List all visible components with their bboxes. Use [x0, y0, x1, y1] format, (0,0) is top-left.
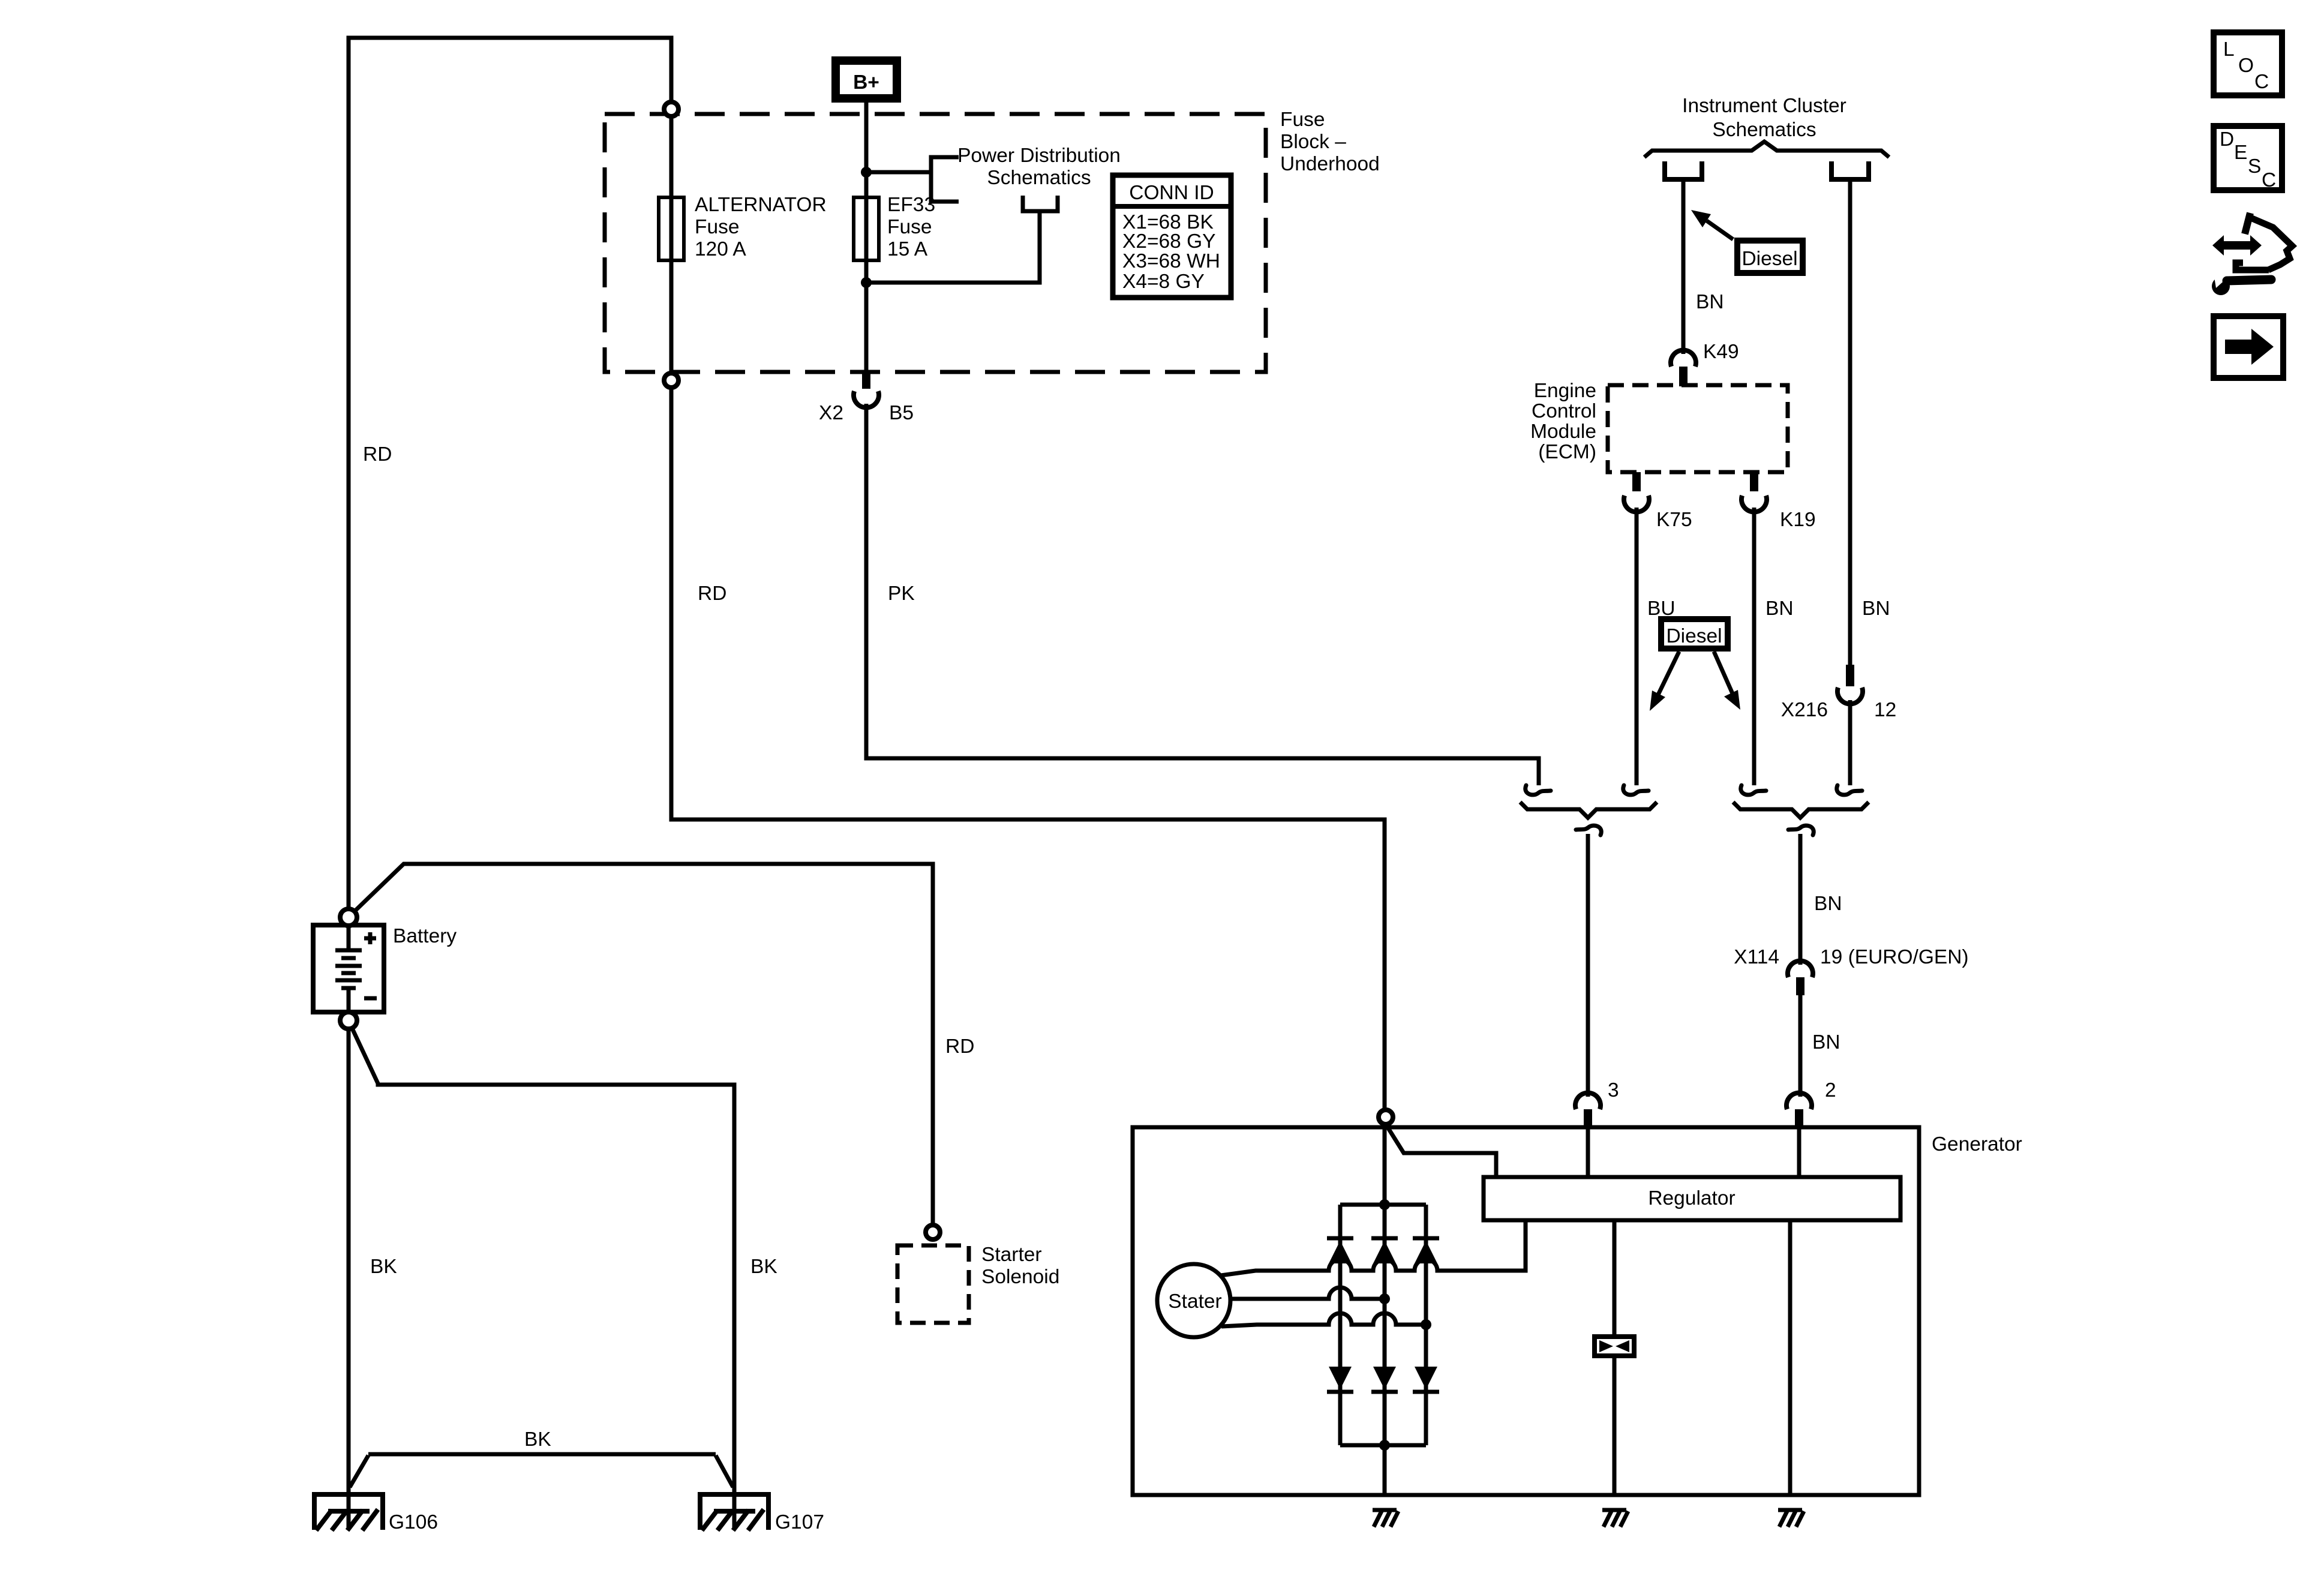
- svg-text:Generator: Generator: [1932, 1133, 2022, 1155]
- svg-text:B5: B5: [889, 402, 914, 424]
- svg-text:(ECM): (ECM): [1538, 441, 1596, 463]
- svg-text:RD: RD: [363, 443, 392, 466]
- svg-text:E: E: [2234, 142, 2247, 164]
- svg-text:Block –: Block –: [1280, 131, 1346, 153]
- svg-text:Solenoid: Solenoid: [981, 1266, 1059, 1288]
- svg-text:Diesel: Diesel: [1742, 248, 1797, 270]
- svg-text:C: C: [2254, 71, 2269, 93]
- svg-text:RD: RD: [698, 583, 726, 605]
- svg-text:EF33: EF33: [887, 194, 935, 216]
- svg-text:S: S: [2248, 155, 2261, 178]
- svg-text:Underhood: Underhood: [1280, 153, 1380, 175]
- svg-text:X216: X216: [1781, 699, 1828, 721]
- svg-text:15 A: 15 A: [887, 238, 928, 260]
- svg-text:K49: K49: [1703, 341, 1739, 363]
- svg-text:Diesel: Diesel: [1666, 625, 1722, 647]
- svg-text:BK: BK: [750, 1256, 777, 1278]
- svg-text:Fuse: Fuse: [695, 216, 739, 238]
- svg-text:BU: BU: [1647, 598, 1676, 620]
- svg-text:B+: B+: [853, 71, 879, 94]
- svg-text:BN: BN: [1812, 1031, 1840, 1053]
- svg-text:Engine: Engine: [1534, 380, 1596, 402]
- svg-text:X2: X2: [819, 402, 843, 424]
- svg-text:C: C: [2262, 169, 2276, 191]
- svg-text:Schematics: Schematics: [987, 167, 1091, 189]
- svg-text:Regulator: Regulator: [1648, 1187, 1735, 1209]
- svg-text:Schematics: Schematics: [1712, 119, 1816, 141]
- svg-text:Fuse: Fuse: [887, 216, 932, 238]
- svg-text:G106: G106: [389, 1511, 438, 1533]
- svg-text:Control: Control: [1532, 400, 1596, 422]
- svg-text:ALTERNATOR: ALTERNATOR: [695, 194, 827, 216]
- svg-text:K75: K75: [1656, 509, 1692, 531]
- svg-text:120 A: 120 A: [695, 238, 746, 260]
- svg-text:Module: Module: [1530, 421, 1596, 443]
- svg-text:Battery: Battery: [393, 925, 457, 947]
- svg-text:BN: BN: [1814, 893, 1842, 915]
- svg-text:K19: K19: [1780, 509, 1816, 531]
- svg-text:3: 3: [1608, 1079, 1619, 1101]
- svg-text:Power Distribution: Power Distribution: [957, 145, 1121, 167]
- svg-text:Stater: Stater: [1168, 1290, 1221, 1313]
- svg-text:L: L: [2223, 38, 2235, 61]
- svg-text:BN: BN: [1862, 598, 1890, 620]
- svg-text:Instrument Cluster: Instrument Cluster: [1682, 95, 1846, 117]
- svg-text:12: 12: [1874, 699, 1896, 721]
- svg-text:G107: G107: [775, 1511, 824, 1533]
- svg-text:D: D: [2220, 128, 2234, 151]
- svg-text:X114: X114: [1734, 946, 1779, 968]
- svg-text:BK: BK: [524, 1428, 551, 1451]
- svg-text:BK: BK: [370, 1256, 397, 1278]
- svg-text:X2=68 GY: X2=68 GY: [1122, 230, 1216, 253]
- svg-text:BN: BN: [1765, 598, 1794, 620]
- svg-text:19 (EURO/GEN): 19 (EURO/GEN): [1820, 946, 1969, 968]
- svg-text:BN: BN: [1696, 291, 1724, 313]
- svg-text:RD: RD: [945, 1035, 974, 1058]
- svg-text:X3=68 WH: X3=68 WH: [1122, 250, 1220, 272]
- svg-text:X4=8 GY: X4=8 GY: [1122, 271, 1205, 293]
- svg-text:CONN ID: CONN ID: [1129, 182, 1214, 204]
- svg-text:2: 2: [1825, 1079, 1836, 1101]
- svg-text:O: O: [2238, 55, 2254, 77]
- svg-text:Starter: Starter: [981, 1244, 1042, 1266]
- svg-text:PK: PK: [888, 583, 915, 605]
- svg-text:Fuse: Fuse: [1280, 109, 1325, 131]
